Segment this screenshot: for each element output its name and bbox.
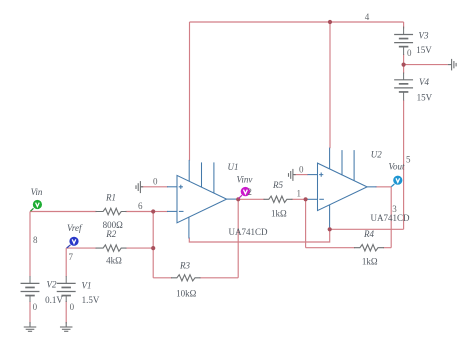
svg-text:1: 1 [297,189,302,199]
junction node 6 R2 [151,246,155,250]
svg-text:Vin: Vin [31,187,43,197]
probe Vref [67,237,79,248]
wire Vin drop [29,212,31,277]
svg-text:R5: R5 [272,180,283,190]
svg-text:8: 8 [33,235,38,245]
svg-text:0: 0 [299,164,304,174]
wire U1 output stub [236,198,238,200]
svg-text:0: 0 [153,177,158,187]
svg-text:0: 0 [33,302,38,312]
svg-text:1.5V: 1.5V [82,295,100,305]
op-amp U1 triangle [167,160,236,239]
ground right of V3 V4 junction [448,59,456,71]
svg-text:7: 7 [69,252,74,262]
battery V1 [57,276,76,302]
svg-text:R4: R4 [363,229,374,239]
resistor R2 [96,245,127,251]
svg-text:V3: V3 [419,31,429,41]
wire R5 row [238,198,307,200]
wire R2 row [126,247,154,249]
junction node 1 U2 inverting [304,197,308,201]
svg-text:2: 2 [247,187,252,197]
wire junction to right ground [404,64,448,66]
wire VEE horizontal to U2 pin [330,228,404,230]
ground at U2 noninverting input [289,169,296,181]
svg-text:UA741CD: UA741CD [370,213,410,223]
wire R4 row [306,247,392,249]
wire U2 output to Vout corner [376,186,392,188]
wire R4 row up to U2 inverting node [305,199,307,247]
junction VEE U2 pin [328,227,332,231]
svg-text:4kΩ: 4kΩ [106,256,122,266]
svg-text:U2: U2 [371,149,382,159]
svg-text:0: 0 [70,302,75,312]
resistor R1 [96,208,127,214]
junction node 2 Vinv [236,197,240,201]
ground below V1 [60,322,72,331]
wire node 6 to U1 inverting stub [153,211,168,213]
svg-text:R1: R1 [105,193,116,203]
svg-text:R3: R3 [179,261,190,271]
battery V3 [394,27,413,56]
resistor R3 [171,275,201,281]
op-amp U2 triangle [308,148,377,228]
svg-text:V2: V2 [47,280,57,290]
svg-text:V4: V4 [419,77,429,87]
wire R3 row [153,277,238,279]
battery V2 [21,276,40,302]
wire Vref drop to V1 [65,248,67,276]
junction V3 V4 ground [402,63,406,67]
probe Vin [31,200,43,211]
wire VEE U2 to U1 rail [189,229,329,242]
wire top VCC rail net 4 [190,21,404,23]
wire V3 top lead [403,22,405,29]
probe Vout [391,176,402,187]
wire junction to V4 top [403,65,405,74]
svg-text:1kΩ: 1kΩ [362,257,378,267]
battery V4 [394,73,413,101]
wire U2 VCC drop [329,22,331,148]
svg-text:15V: 15V [417,93,433,103]
wire U1 VCC drop [189,22,191,161]
svg-text:0.1V: 0.1V [45,295,63,305]
wire V3 bottom to junction [403,54,405,65]
ground below V2 [24,322,37,331]
svg-text:5: 5 [406,154,411,164]
svg-text:3: 3 [392,204,397,214]
wire Vout down to R4 row [390,187,392,248]
svg-text:0: 0 [407,48,412,58]
svg-text:Vref: Vref [67,223,83,233]
wire R1 row net 8 to node 6 [30,211,153,213]
svg-text:Vinv: Vinv [236,175,252,185]
wire U1 ground to noninverting input [141,186,169,188]
svg-text:R2: R2 [105,229,116,239]
wire R3 left up to node 6 [152,212,154,278]
svg-text:10kΩ: 10kΩ [176,289,197,299]
svg-text:UA741CD: UA741CD [228,227,268,237]
wire V2 bottom to ground [29,301,31,324]
junction node 6 R1 [151,209,155,213]
junction node 4 top rail [328,20,332,24]
svg-text:U1: U1 [228,162,239,172]
wire U2 ground to noninverting input [294,174,308,176]
wire Vref corner net 7 [66,247,96,249]
svg-text:4: 4 [365,12,370,22]
svg-text:15V: 15V [416,45,432,55]
wire V1 bottom to ground [65,301,67,324]
svg-text:V1: V1 [82,281,92,291]
ground at U1 noninverting input [136,181,143,193]
svg-text:Vout: Vout [388,161,405,171]
wire V4 bottom VEE drop [403,100,405,229]
svg-text:6: 6 [138,201,143,211]
wire R3 feedback drop from Vinv [237,199,239,277]
resistor R5 [264,196,293,202]
probe Vinv [239,187,251,199]
svg-text:1kΩ: 1kΩ [271,208,287,218]
resistor R4 [354,245,384,251]
